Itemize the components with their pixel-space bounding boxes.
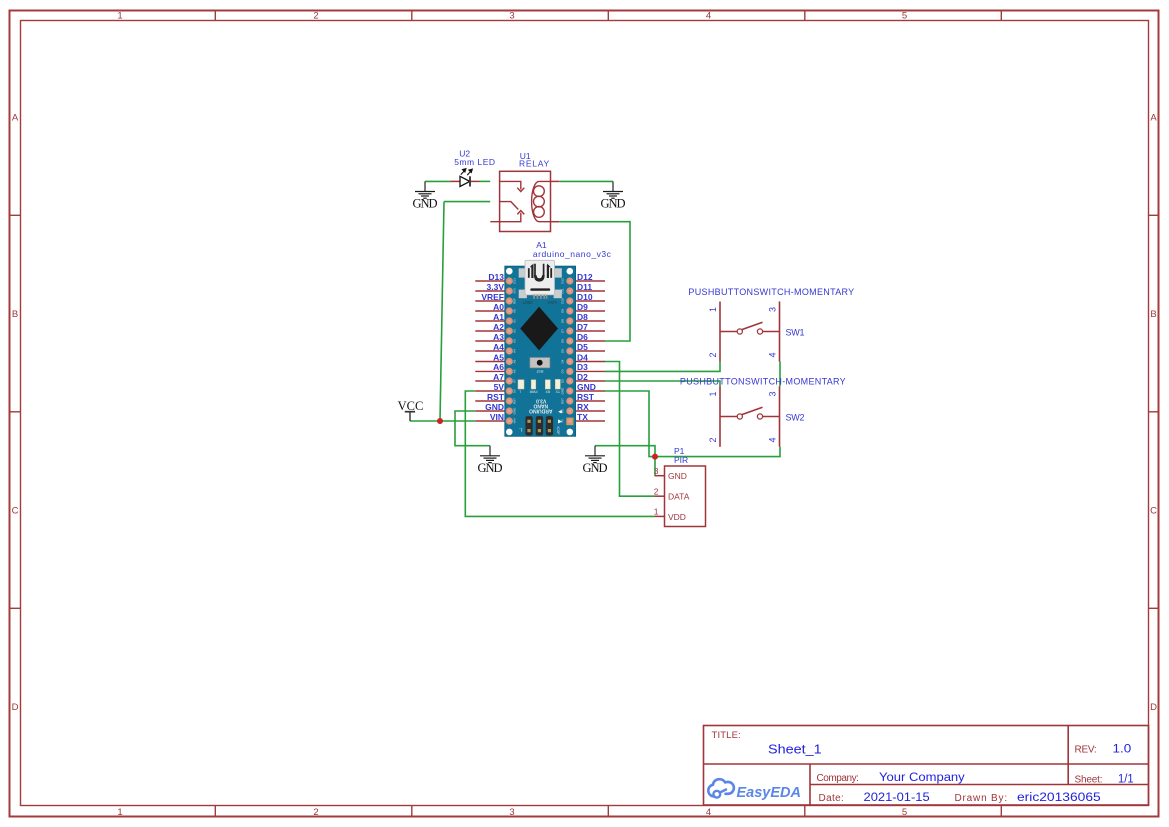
WIRES <box>410 181 780 516</box>
svg-text:2: 2 <box>313 11 318 22</box>
svg-text:4: 4 <box>768 437 778 442</box>
wire relay pin2 horizontal <box>444 201 490 203</box>
svg-text:L: L <box>519 390 521 394</box>
svg-text:Drawn By:: Drawn By: <box>955 793 1008 804</box>
ground GND1 (left of LED) <box>413 181 438 210</box>
svg-text:DATA: DATA <box>668 492 690 502</box>
LED U2 <box>450 148 495 186</box>
svg-text:1/1: 1/1 <box>1118 774 1134 786</box>
svg-text:TX: TX <box>561 419 565 423</box>
RELAY U1 <box>490 151 559 232</box>
TITLEBLOCK <box>704 726 1149 806</box>
svg-text:REV:: REV: <box>1075 745 1097 756</box>
svg-text:TITLE:: TITLE: <box>712 730 741 741</box>
svg-text:3: 3 <box>509 11 514 22</box>
svg-text:A1: A1 <box>513 319 517 323</box>
svg-text:A4: A4 <box>493 342 504 352</box>
svg-text:4: 4 <box>768 352 778 357</box>
svg-text:D5: D5 <box>561 349 565 353</box>
svg-text:Sheet_1: Sheet_1 <box>768 742 822 757</box>
svg-text:Company:: Company: <box>817 773 859 784</box>
svg-text:D11: D11 <box>561 288 565 294</box>
svg-text:D6: D6 <box>577 332 588 342</box>
svg-text:3.3V: 3.3V <box>487 282 505 292</box>
svg-text:A7: A7 <box>493 372 504 382</box>
svg-text:RST: RST <box>577 392 595 402</box>
svg-text:VCC: VCC <box>398 399 424 413</box>
svg-text:D7: D7 <box>577 322 588 332</box>
svg-text:D: D <box>1150 702 1157 713</box>
svg-text:1.0: 1.0 <box>1113 744 1132 756</box>
wire GND left pin to GND3 <box>455 411 490 446</box>
svg-text:A4: A4 <box>513 349 517 353</box>
svg-text:RST: RST <box>487 392 505 402</box>
svg-text:1.: 1. <box>519 427 523 432</box>
PIR P1 <box>654 446 706 527</box>
svg-text:3V3: 3V3 <box>513 288 517 294</box>
usb trident (rotated) <box>529 264 551 281</box>
ARDUINO A1 <box>475 240 611 436</box>
svg-text:D3: D3 <box>577 362 588 372</box>
wire relay pin4 to GND2 <box>559 180 613 182</box>
svg-text:TX: TX <box>555 390 560 394</box>
pads <box>506 278 573 425</box>
svg-text:GND: GND <box>478 461 503 475</box>
wire 5V to PIR VDD <box>465 391 654 516</box>
junction dot B <box>652 454 658 460</box>
svg-text:3: 3 <box>509 807 514 818</box>
usb gray tabs <box>519 268 562 298</box>
ground GND3 (below arduino left) <box>478 446 503 475</box>
wire D3 to SW1 pin2 <box>605 362 720 372</box>
svg-text:GND: GND <box>485 402 504 412</box>
svg-text:D10: D10 <box>577 292 593 302</box>
EasyEDA logo <box>708 779 801 801</box>
svg-text:3: 3 <box>768 391 778 396</box>
svg-text:1: 1 <box>708 307 718 312</box>
pin labels right <box>577 272 596 422</box>
svg-text:GND: GND <box>413 197 438 211</box>
svg-text:D12: D12 <box>561 278 565 284</box>
svg-text:1: 1 <box>117 807 122 818</box>
svg-text:1: 1 <box>708 391 718 396</box>
svg-text:5: 5 <box>902 807 907 818</box>
svg-text:D2: D2 <box>577 372 588 382</box>
svg-text:5V: 5V <box>494 382 505 392</box>
svg-text:2007: 2007 <box>522 300 533 305</box>
svg-text:A0: A0 <box>493 302 504 312</box>
wire GND right pin to SW2 pin4 <box>605 391 780 457</box>
P1 pin numbers 3,2,1 <box>654 466 659 517</box>
svg-text:Your Company: Your Company <box>879 772 965 784</box>
wire GND1 to LED <box>425 180 450 182</box>
svg-text:3: 3 <box>654 466 659 476</box>
pin lines left <box>475 281 505 421</box>
svg-text:A2: A2 <box>493 322 504 332</box>
svg-text:2: 2 <box>313 807 318 818</box>
svg-text:ICSP: ICSP <box>556 427 560 436</box>
SWITCHES <box>680 287 854 447</box>
svg-text:D8: D8 <box>561 319 565 323</box>
svg-text:Sheet:: Sheet: <box>1075 775 1103 786</box>
svg-text:PUSHBUTTONSWITCH-MOMENTARY: PUSHBUTTONSWITCH-MOMENTARY <box>688 287 854 297</box>
svg-text:GND: GND <box>601 197 626 211</box>
svg-text:VDD: VDD <box>668 512 686 522</box>
svg-text:2021-01-15: 2021-01-15 <box>864 792 930 804</box>
svg-text:GND: GND <box>583 461 608 475</box>
ground GND2 (right of relay) <box>601 181 626 210</box>
svg-text:D6: D6 <box>561 339 565 343</box>
svg-text:D13: D13 <box>488 272 504 282</box>
svg-text:D10: D10 <box>561 298 565 304</box>
svg-text:VIN: VIN <box>513 418 517 423</box>
svg-text:GND: GND <box>577 382 596 392</box>
svg-text:PWR: PWR <box>529 390 537 394</box>
svg-text:TX: TX <box>577 412 588 422</box>
svg-text:PIR: PIR <box>674 455 688 465</box>
svg-text:RST: RST <box>535 369 543 373</box>
ICSP header <box>525 416 553 435</box>
svg-text:A1: A1 <box>493 312 504 322</box>
RST button <box>530 358 550 368</box>
svg-text:RX: RX <box>561 409 565 413</box>
svg-text:C: C <box>1150 505 1157 516</box>
svg-text:2: 2 <box>708 352 718 357</box>
svg-text:V3.0: V3.0 <box>536 397 547 403</box>
wire D4 to PIR DATA <box>605 362 655 497</box>
title block frame lines <box>704 726 1149 806</box>
svg-text:5: 5 <box>902 11 907 22</box>
svg-text:A5: A5 <box>513 359 517 363</box>
svg-text:RELAY: RELAY <box>519 158 550 168</box>
svg-text:RST: RST <box>513 398 517 404</box>
svg-text:A3: A3 <box>513 339 517 343</box>
svg-text:A6: A6 <box>493 362 504 372</box>
svg-text:A2: A2 <box>513 329 517 333</box>
svg-text:A7: A7 <box>513 379 517 383</box>
svg-text:A5: A5 <box>493 352 504 362</box>
svg-text:3: 3 <box>768 307 778 312</box>
svg-text:B: B <box>12 309 18 320</box>
pin labels left <box>481 272 504 422</box>
svg-text:VIN: VIN <box>490 412 504 422</box>
wire D2 to SW2 pin1 <box>605 381 720 386</box>
svg-text:VREF: VREF <box>481 292 504 302</box>
wire GND4 to PIR GND <box>595 446 655 476</box>
wire relay pin5 to D6 <box>559 222 630 341</box>
svg-text:arduino_nano_v3c: arduino_nano_v3c <box>533 249 612 259</box>
svg-text:GND: GND <box>513 407 517 415</box>
P1 pin names GND/DATA/VDD <box>668 471 690 522</box>
svg-text:D5: D5 <box>577 342 588 352</box>
svg-text:D12: D12 <box>577 272 593 282</box>
pin lines right <box>576 281 605 421</box>
svg-text:5V: 5V <box>513 389 517 393</box>
svg-text:D: D <box>12 702 19 713</box>
svg-text:A: A <box>1150 112 1157 123</box>
svg-text:D2: D2 <box>561 379 565 383</box>
junction dot A <box>437 418 443 424</box>
svg-text:A0: A0 <box>513 309 517 313</box>
svg-text:A6: A6 <box>513 369 517 373</box>
svg-text:2: 2 <box>708 437 718 442</box>
svg-text:D4: D4 <box>561 359 565 363</box>
wire LED to relay pin1 <box>480 180 491 182</box>
svg-text:4: 4 <box>706 11 711 22</box>
svg-text:GND: GND <box>668 471 687 481</box>
svg-text:D9: D9 <box>561 309 565 313</box>
mounting holes <box>506 268 573 435</box>
svg-text:ARDUINO: ARDUINO <box>529 407 552 413</box>
svg-text:2: 2 <box>654 486 659 496</box>
svg-text:D11: D11 <box>577 282 592 292</box>
svg-text:D7: D7 <box>561 329 565 333</box>
board body <box>505 266 576 436</box>
silk text <box>529 397 552 413</box>
svg-text:USA: USA <box>546 300 556 305</box>
svg-text:A3: A3 <box>493 332 504 342</box>
leds <box>518 379 560 389</box>
svg-text:D4: D4 <box>577 352 588 362</box>
svg-text:RX: RX <box>577 402 589 412</box>
svg-text:eric20136065: eric20136065 <box>1017 792 1101 804</box>
usb connector <box>525 260 555 295</box>
chip diamond <box>520 307 558 351</box>
svg-text:SW2: SW2 <box>786 412 805 422</box>
svg-text:4: 4 <box>706 807 711 818</box>
VCC <box>398 399 424 421</box>
svg-text:1: 1 <box>117 11 122 22</box>
svg-text:C: C <box>12 505 19 516</box>
svg-text:SW1: SW1 <box>786 327 805 337</box>
wire SW1 pin4 to SW2 pin3 <box>779 362 781 387</box>
wire relay pin2 slanted down to VCC junction <box>440 202 444 421</box>
svg-text:RST: RST <box>561 398 565 404</box>
svg-text:B: B <box>1150 309 1156 320</box>
svg-text:PUSHBUTTONSWITCH-MOMENTARY: PUSHBUTTONSWITCH-MOMENTARY <box>680 376 846 386</box>
svg-text:D13: D13 <box>513 278 517 284</box>
svg-text:A: A <box>12 112 19 123</box>
svg-text:5mm LED: 5mm LED <box>454 157 495 167</box>
TX gold pad <box>566 418 573 426</box>
svg-text:Date:: Date: <box>819 793 844 804</box>
GND symbols <box>413 181 626 475</box>
svg-text:REF: REF <box>513 298 517 304</box>
svg-text:1: 1 <box>654 507 659 517</box>
svg-text:EasyEDA: EasyEDA <box>737 785 801 801</box>
svg-text:D3: D3 <box>561 369 565 373</box>
ground GND4 (below arduino right) <box>583 446 608 475</box>
svg-text:RX: RX <box>545 390 550 394</box>
svg-text:D9: D9 <box>577 302 588 312</box>
wire VCC to VIN <box>410 420 475 422</box>
svg-text:D8: D8 <box>577 312 588 322</box>
svg-text:GND: GND <box>561 387 565 395</box>
